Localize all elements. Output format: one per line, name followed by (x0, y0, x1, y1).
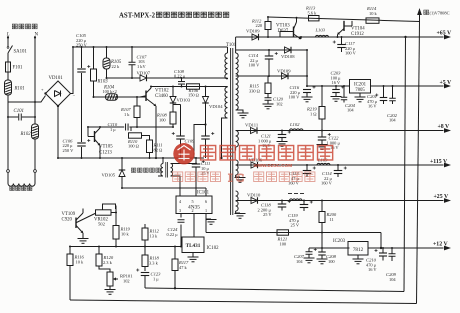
text degaussing coil label (10, 186, 32, 190)
svg-text:11: 11 (330, 217, 334, 222)
transistor VT103 (276, 17, 301, 39)
capacitor C109 (172, 105, 195, 159)
node N (34, 33, 39, 39)
wire base drive (93, 96, 147, 98)
wire (93, 81, 95, 97)
svg-text:22 k: 22 k (112, 64, 120, 69)
diode VD109 second (277, 68, 291, 79)
wire +25V rail (236, 198, 451, 203)
svg-text:VD104: VD104 (209, 104, 223, 109)
resistor R110 (127, 127, 150, 148)
capacitor C208 (314, 248, 337, 264)
capacitor C122 (317, 130, 341, 151)
svg-text:IC101: IC101 (197, 191, 210, 196)
svg-text:7812: 7812 (353, 247, 364, 253)
svg-text:VD111: VD111 (245, 122, 259, 127)
ground IC203 (353, 255, 364, 264)
capacitor C123 (136, 269, 161, 289)
text +8 V (438, 124, 451, 130)
svg-text:1 kV: 1 kV (137, 64, 146, 69)
svg-text:3.3 k: 3.3 k (149, 261, 159, 266)
resistor R105 (103, 46, 122, 78)
svg-text:102: 102 (123, 279, 130, 284)
capacitor C207 (294, 248, 315, 264)
transformer core (231, 48, 233, 215)
wire pin2 down (193, 214, 195, 238)
diode VD111 (245, 122, 259, 133)
capacitor C203 (331, 71, 345, 102)
svg-text:6: 6 (205, 199, 207, 204)
wire main rail (73, 46, 228, 48)
svg-text:100 Ω: 100 Ω (128, 143, 140, 148)
svg-text:16 V: 16 V (368, 104, 377, 109)
resistor R117 (172, 247, 189, 290)
resistor R112 top (251, 17, 271, 38)
svg-text:7805: 7805 (355, 88, 365, 93)
svg-text:82 Ω: 82 Ω (154, 147, 163, 152)
wire +115V rail (236, 163, 451, 168)
svg-text:VD108: VD108 (281, 54, 295, 59)
wire +12V rail (368, 246, 451, 251)
svg-text:0.22 μ: 0.22 μ (174, 73, 186, 78)
svg-text:(1)V7808C: (1)V7808C (430, 10, 450, 15)
inductor L104 (288, 194, 304, 201)
wire L top (7, 36, 9, 47)
shunt regulator IC102 TL431 (182, 237, 219, 253)
svg-text:100: 100 (328, 259, 335, 264)
ground secondary w1 (236, 110, 249, 118)
ground RP101 (105, 286, 116, 294)
wire (380, 233, 382, 250)
transistor VT105 (88, 128, 113, 156)
degauss terminal left (7, 170, 10, 173)
wire bottom return outer (70, 300, 417, 304)
text +12 V (433, 242, 448, 248)
capacitor C119 (288, 200, 313, 228)
capacitor C116 (289, 85, 316, 102)
wire rect 76 (246, 75, 307, 77)
resistor R114 (366, 6, 379, 23)
svg-text:100 k×2: 100 k×2 (103, 89, 117, 94)
switch SA101 (7, 46, 27, 55)
wire rect 50 (246, 49, 307, 51)
svg-text:250 V: 250 V (63, 148, 75, 153)
capacitor C204 (341, 86, 356, 113)
wire VD107 rail (106, 77, 141, 79)
resistor R111 (147, 140, 163, 158)
wire feedback vertical 65V (404, 36, 407, 292)
svg-text:VD105: VD105 (102, 173, 116, 178)
resistor R101 (5, 80, 25, 95)
svg-text:R103: R103 (97, 80, 109, 85)
svg-text:C1213: C1213 (99, 151, 112, 156)
svg-text:+8 V: +8 V (438, 124, 451, 130)
resistor R118 (142, 247, 160, 272)
svg-text:C920: C920 (62, 218, 73, 223)
svg-text:VD109: VD109 (277, 68, 291, 73)
wire primary return (220, 118, 227, 159)
svg-text:2: 2 (192, 208, 194, 213)
diode VD108 (281, 47, 295, 59)
diode VD109 main (246, 29, 260, 41)
svg-text:IC201: IC201 (354, 82, 367, 87)
capacitor C113 (288, 164, 316, 186)
svg-text:C3460: C3460 (155, 94, 168, 99)
svg-text:10 k: 10 k (369, 11, 377, 16)
svg-text:C109: C109 (185, 139, 196, 144)
svg-text:100 V: 100 V (345, 51, 357, 56)
text +25 V (434, 194, 449, 200)
svg-text:250 V: 250 V (76, 42, 88, 47)
svg-text:47 k: 47 k (179, 265, 187, 270)
svg-text:104: 104 (296, 259, 303, 264)
resistor R200 (319, 200, 337, 233)
svg-text:104: 104 (347, 108, 354, 113)
capacitor C107 (129, 46, 148, 78)
resistor R119 (113, 226, 131, 247)
wire (111, 206, 117, 226)
svg-text:102: 102 (276, 101, 283, 106)
potentiometer RP101 (99, 266, 133, 286)
capacitor C118 (258, 200, 291, 218)
ground secondary w3 (235, 175, 246, 182)
wire collector rail (150, 86, 228, 88)
wire (147, 77, 228, 79)
resistor R103 (91, 46, 109, 85)
svg-text:100: 100 (280, 241, 287, 246)
svg-text:1 μ: 1 μ (110, 127, 116, 132)
wire pin3 down (180, 214, 182, 247)
text +65 V (437, 31, 452, 37)
wire node join (306, 49, 308, 87)
svg-text:100 V: 100 V (249, 63, 261, 68)
svg-text:25 V: 25 V (263, 212, 272, 217)
diode VD103 (170, 86, 191, 104)
svg-text:16 V: 16 V (332, 80, 341, 85)
svg-text:VT105: VT105 (99, 145, 113, 150)
svg-text:I C: I C (228, 171, 244, 185)
wire pin1 down (206, 214, 217, 233)
svg-text:104: 104 (389, 277, 396, 282)
svg-text:VT102: VT102 (155, 89, 169, 94)
svg-text:VD107: VD107 (137, 71, 151, 76)
wire AC to bridge (8, 96, 46, 104)
wire VT102 snubber link (194, 123, 207, 158)
svg-text:R102: R102 (20, 132, 32, 137)
svg-text:VT104: VT104 (351, 27, 365, 32)
svg-text:1: 1 (205, 208, 207, 213)
svg-text:4N35: 4N35 (188, 205, 200, 211)
degaussing coil (8, 172, 35, 186)
resistor R107 (120, 96, 140, 127)
ground secondary w4 (235, 211, 246, 218)
capacitor C101 (7, 109, 36, 121)
svg-text:VT103: VT103 (276, 24, 290, 29)
svg-text:VD101: VD101 (49, 76, 64, 81)
text +115 V (430, 159, 448, 165)
resistor R104 (103, 86, 118, 101)
svg-text:SA101: SA101 (14, 50, 28, 55)
flyback winding symbol (158, 157, 197, 196)
transistor VT109 (62, 209, 97, 234)
voltage regulator IC201 7805 (350, 80, 371, 94)
wire bridge bottom (57, 106, 59, 158)
diode VD110 (247, 192, 261, 203)
svg-text:C101: C101 (14, 109, 24, 114)
capacitor C106 (63, 139, 91, 153)
inductor L102 (289, 122, 303, 131)
wire +8V rail (236, 128, 451, 133)
text from flyback transformer (131, 168, 160, 172)
bridge rectifier VD101 (41, 76, 76, 107)
svg-text:330 Ω: 330 Ω (249, 88, 261, 93)
svg-text:100 V: 100 V (289, 95, 301, 100)
ground IC201 (355, 93, 366, 102)
voltage regulator IC203 7812 (333, 239, 368, 255)
wire reference bus (69, 246, 182, 248)
wire bridge to rail (71, 46, 75, 94)
wire (300, 36, 302, 39)
wire L bottom (7, 95, 9, 170)
fuse F101 (6, 62, 23, 72)
text to V7808C (424, 10, 450, 15)
resistor R112 sense (142, 224, 160, 247)
capacitor C108 (174, 69, 186, 87)
svg-text:F101: F101 (13, 66, 23, 71)
capacitor C111 (192, 158, 211, 196)
svg-text:4: 4 (179, 199, 182, 204)
wire emitter (155, 106, 157, 159)
svg-text:13 k: 13 k (150, 234, 158, 239)
capacitor C210 (366, 248, 387, 272)
transformer primary winding 1 (225, 47, 228, 79)
svg-text:25 V: 25 V (291, 223, 300, 228)
diode VD104 (202, 86, 223, 136)
svg-text:AST-MPX-2: AST-MPX-2 (119, 13, 156, 20)
transformer secondary winding 3 (236, 160, 239, 175)
transformer T101 label (226, 43, 237, 48)
wire secondary tap 76V (236, 75, 246, 77)
svg-text:5.6 k: 5.6 k (308, 10, 318, 15)
wire drive line (87, 126, 124, 128)
svg-text:+: + (41, 87, 44, 92)
wire bottom return inner (145, 288, 404, 292)
svg-text:502: 502 (98, 222, 106, 227)
wire feedback vertical B+ (417, 22, 420, 304)
wire top sense line (267, 16, 420, 22)
svg-text:L102: L102 (289, 122, 300, 127)
capacitor C105 (76, 33, 90, 72)
capacitor C114 top (249, 49, 278, 77)
text AC input (jiaoliu shuru) (12, 24, 37, 29)
svg-text:+5 V: +5 V (440, 80, 453, 86)
svg-text:100: 100 (159, 117, 166, 122)
capacitor C124 (167, 220, 185, 237)
wire (7, 72, 9, 80)
svg-text:VD110: VD110 (247, 192, 261, 197)
transformer secondary winding 2 (236, 131, 239, 151)
wire to IC201 (306, 85, 350, 87)
resistor R115 (249, 76, 272, 94)
resistor R106 (187, 84, 200, 98)
svg-text:1 μ: 1 μ (153, 276, 159, 281)
svg-text:1 Ω: 1 Ω (310, 111, 317, 116)
svg-text:1 k: 1 k (124, 112, 130, 117)
transformer secondary winding 4 (236, 191, 239, 211)
diode VD105 (zener) (102, 157, 126, 188)
wire bulk cap branch (81, 46, 83, 159)
svg-text:3: 3 (179, 208, 181, 213)
svg-text:R101: R101 (14, 87, 25, 92)
transistor VT102 (140, 87, 169, 107)
node L (6, 33, 10, 39)
transformer primary winding 2 (225, 87, 228, 118)
capacitor C201 (367, 86, 387, 109)
inductor L103 top (315, 28, 329, 38)
wire 12V feed (206, 232, 381, 234)
op-amp IC101 optocoupler 4N35 (176, 191, 212, 214)
svg-text:+12 V: +12 V (433, 242, 448, 248)
wire secondary tap 50V (236, 49, 246, 51)
wire B+ sense up-arrow (417, 8, 422, 22)
wire (88, 127, 100, 158)
potentiometer VR102 (94, 204, 116, 227)
capacitor C202 (387, 86, 398, 123)
svg-text:0.22 μ: 0.22 μ (167, 232, 179, 237)
capacitor C114 mid (321, 164, 347, 186)
svg-text:IC203: IC203 (333, 239, 346, 244)
wire +5V rail (371, 84, 452, 89)
svg-text:+115 V: +115 V (430, 159, 448, 165)
diode VD107 (137, 71, 151, 82)
svg-text:IC102: IC102 (207, 246, 220, 251)
wire N (34, 36, 36, 124)
resistor R121 (277, 230, 289, 247)
transistor VT104 (337, 21, 366, 38)
svg-text:104: 104 (389, 118, 396, 123)
svg-text:10 k: 10 k (121, 232, 129, 237)
watermark dzsc.com (173, 143, 333, 185)
svg-text:VD109: VD109 (246, 29, 260, 34)
transformer secondary winding 1 (236, 37, 239, 110)
wire (34, 139, 36, 170)
svg-text:+25 V: +25 V (434, 194, 449, 200)
text +5 V (440, 80, 453, 86)
svg-text:16 V: 16 V (368, 267, 377, 272)
svg-text:+65 V: +65 V (437, 31, 452, 37)
wire (129, 126, 174, 128)
svg-text:160 V: 160 V (321, 181, 333, 186)
capacitor C120 (263, 94, 284, 109)
ground VT109 emitter (78, 233, 89, 243)
wire (7, 53, 9, 62)
svg-text:2.3 k: 2.3 k (103, 260, 113, 265)
wire +65V rail (236, 35, 451, 40)
svg-text:VD103: VD103 (177, 98, 191, 103)
capacitor C112 (201, 132, 214, 158)
capacitor C117 (333, 36, 357, 56)
capacitor C209 (386, 248, 397, 282)
svg-text:VT109: VT109 (62, 212, 76, 217)
capacitor C121 (258, 130, 291, 149)
wire bottom return (57, 157, 204, 159)
resistor R120 (96, 247, 114, 267)
svg-text:220: 220 (256, 23, 263, 28)
svg-text:TL431: TL431 (186, 243, 201, 249)
svg-text:C1912: C1912 (351, 32, 364, 37)
svg-text:WWW.DZSC.COM: WWW.DZSC.COM (254, 163, 293, 168)
svg-text:5: 5 (192, 199, 194, 204)
wire 7812 input (309, 233, 350, 250)
svg-text:10 k: 10 k (76, 260, 84, 265)
capacitor C110 (108, 122, 129, 132)
svg-text:L103: L103 (315, 28, 326, 33)
svg-text:25 V: 25 V (201, 171, 210, 176)
wire feedback (121, 187, 206, 196)
degauss terminal right (34, 170, 37, 173)
title text AST-MPX-2 power supply schematic (119, 12, 229, 19)
inductor L103 mid (317, 158, 330, 166)
resistor R108 (156, 103, 176, 127)
diode VD106 (249, 157, 263, 168)
resistor R219 (306, 85, 325, 131)
ground TL431 (188, 253, 199, 262)
resistor R116 (67, 247, 85, 301)
svg-text:D637: D637 (278, 29, 289, 34)
resistor R102 (20, 124, 39, 139)
resistor R113 (305, 6, 319, 21)
